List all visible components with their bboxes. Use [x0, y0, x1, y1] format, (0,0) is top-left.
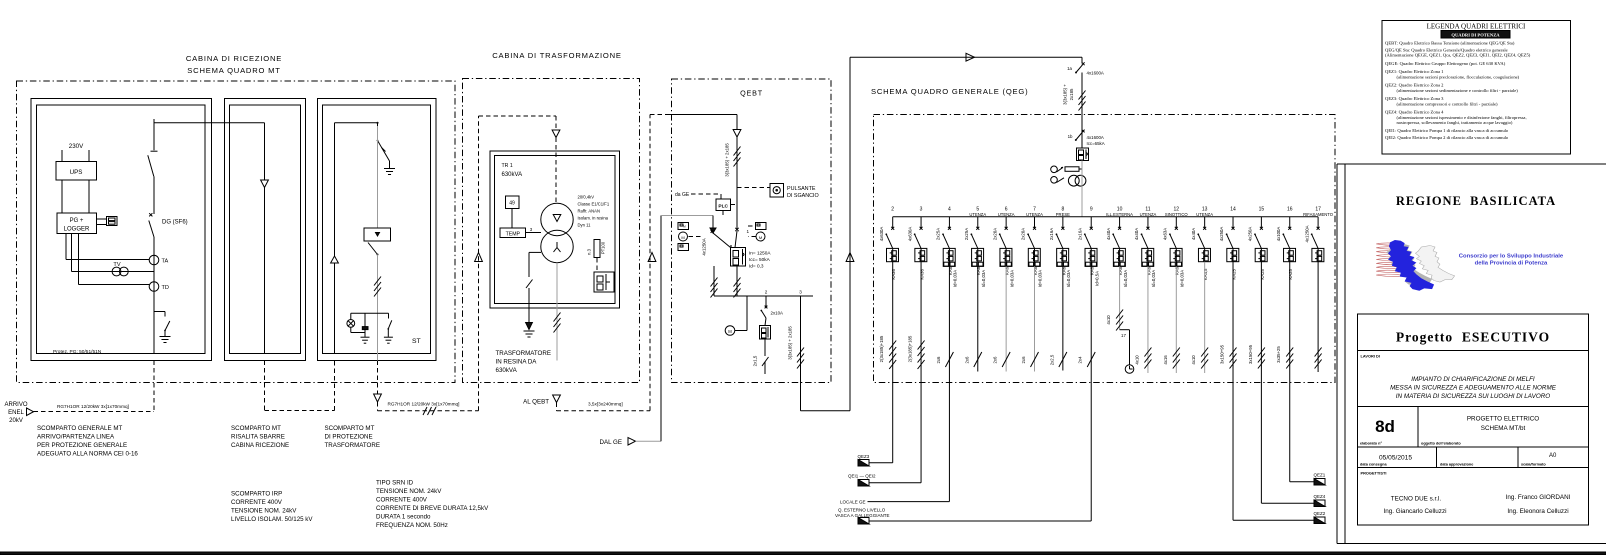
svg-text:17: 17 — [1121, 333, 1126, 338]
svg-text:Icc=65kA: Icc=65kA — [1087, 141, 1105, 146]
feeder 10 wire — [1119, 266, 1121, 329]
svg-text:Raffr. ANAN: Raffr. ANAN — [578, 209, 601, 214]
svg-text:RG7H1OR 12/20kW 3x[1x70mmq]: RG7H1OR 12/20kW 3x[1x70mmq] — [388, 402, 460, 407]
feeder 13 hatch — [1201, 348, 1208, 369]
feeder 2 switch — [760, 296, 783, 318]
wire — [1081, 161, 1083, 217]
feeder 3 cable label — [908, 335, 913, 362]
PG + LOGGER unit — [57, 213, 97, 234]
switch 1a — [1067, 57, 1104, 75]
CT TA — [149, 255, 168, 265]
svg-text:3x150+95: 3x150+95 — [1220, 344, 1225, 364]
wire feeder9 to Q.ESTERNO — [869, 520, 1091, 522]
feeder 16 hatch — [1286, 348, 1293, 369]
svg-text:CORRENTE DI BREVE DURATA 1: CORRENTE DI BREVE DURATA 12,5kV — [376, 505, 489, 512]
svg-text:DURATA 1 secondo: DURATA 1 secondo — [376, 514, 431, 521]
svg-text:2x6: 2x6 — [1021, 356, 1026, 364]
svg-text:Id=0,03A: Id=0,03A — [1038, 270, 1043, 287]
feeder 8 wire — [1062, 266, 1064, 370]
svg-text:4x100A: 4x100A — [1276, 227, 1281, 242]
progettisti box — [1358, 468, 1589, 526]
svg-text:2(3x185)+185: 2(3x185)+185 — [879, 335, 884, 362]
surge arrester — [362, 313, 368, 337]
feeder 4 wire — [948, 266, 950, 382]
svg-text:(alimentazione compressori e c: (alimentazione compressori e controllo f… — [1397, 102, 1498, 107]
wire logger to TD — [79, 234, 150, 285]
feeder 13 rating — [1203, 268, 1208, 280]
svg-text:QEZ3: Quadro Elettrico Zona 3: QEZ3: Quadro Elettrico Zona 3 — [1385, 96, 1444, 101]
svg-text:KA4,5: KA4,5 — [1203, 268, 1208, 280]
feeder 13 breaker — [1198, 248, 1210, 261]
ground — [384, 337, 393, 343]
wire riser cell2 — [264, 123, 266, 180]
wire logger to TA — [66, 234, 149, 260]
feeder 13 cable label — [1191, 355, 1196, 365]
svg-text:SCOMPARTO IRP: SCOMPARTO IRP — [231, 491, 282, 498]
svg-text:SCOMPARTO MT: SCOMPARTO MT — [231, 425, 281, 432]
svg-text:Id= 0,3: Id= 0,3 — [749, 264, 764, 269]
svg-text:RIFASAMENTO: RIFASAMENTO — [1303, 212, 1334, 217]
wire — [62, 150, 89, 162]
svg-text:QEZ4: Quadro Elettrico Zona 4: QEZ4: Quadro Elettrico Zona 4 — [1385, 110, 1444, 115]
svg-text:data consegna: data consegna — [1360, 463, 1387, 467]
wire cell3 top — [335, 122, 379, 124]
feeder 4 rating — [948, 266, 958, 287]
svg-text:A0: A0 — [1549, 453, 1557, 459]
feeder 4 wire below — [948, 383, 950, 502]
svg-text:REGIONE BASILICATA: REGIONE BASILICATA — [1396, 194, 1556, 208]
svg-text:TEMP: TEMP — [506, 232, 521, 238]
label 2x1,5 — [753, 355, 758, 366]
scomparto IRP caption — [231, 491, 313, 524]
svg-text:3(3x185) +: 3(3x185) + — [1063, 84, 1068, 105]
svg-text:QEBT: Quadro Elettrico Bassa T: QEBT: Quadro Elettrico Bassa Tensione (a… — [1385, 41, 1515, 46]
svg-text:QEZ2: Quadro Elettrico Zona 2: QEZ2: Quadro Elettrico Zona 2 — [1385, 83, 1444, 88]
switch contact — [368, 243, 379, 256]
svg-text:LIVELLO ISOLAM. 50/125 kV: LIVELLO ISOLAM. 50/125 kV — [231, 516, 313, 523]
breaker data — [749, 251, 771, 269]
cable to QEBT (dashed) — [557, 115, 738, 411]
scomparto generale MT cell — [31, 99, 212, 361]
svg-text:PER PROTEZIONE GENERALE: PER PROTEZIONE GENERALE — [37, 442, 127, 449]
tipo SRN caption — [376, 480, 489, 530]
svg-text:2x2,5: 2x2,5 — [1049, 354, 1054, 365]
oggetto text — [1467, 416, 1539, 433]
wire feeder16 to QEZ1 — [1290, 481, 1314, 483]
cable label vertical — [725, 143, 730, 177]
feeder 14 cable label — [1220, 344, 1225, 364]
feeder 2 wire — [892, 262, 894, 383]
svg-text:20kV: 20kV — [9, 418, 23, 424]
svg-text:CABINA RICEZIONE: CABINA RICEZIONE — [231, 442, 289, 449]
feeder 7 breaker — [1028, 248, 1040, 266]
svg-text:CABINA DI TRASFORMAZIONE: CABINA DI TRASFORMAZIONE — [492, 51, 622, 60]
svg-text:4x16: 4x16 — [1163, 355, 1168, 365]
transformer TR1 — [541, 203, 573, 262]
feeder 9 wire — [1090, 266, 1092, 382]
feeder 10 breaker — [1113, 248, 1125, 266]
flag Q. ESTERNO — [835, 508, 889, 525]
wire — [153, 312, 155, 354]
feeder 3 hatch — [918, 341, 925, 370]
transformer earthing — [526, 252, 541, 329]
svg-text:8d: 8d — [1375, 417, 1395, 436]
label 4x1250A — [702, 238, 707, 255]
svg-text:ST: ST — [412, 338, 421, 345]
QEG busbar — [893, 216, 1318, 218]
wire — [377, 255, 379, 361]
cable to transformer (dashed) — [374, 361, 479, 411]
svg-text:AL QEBT: AL QEBT — [523, 399, 549, 406]
svg-text:Id=0,03A: Id=0,03A — [1151, 270, 1156, 287]
disconnector DG (SF6) — [149, 213, 188, 237]
svg-text:Consorzio per lo Sviluppo Indu: Consorzio per lo Sviluppo Industriale — [1459, 254, 1564, 260]
svg-text:M: M — [759, 235, 762, 240]
voltmeter — [1051, 166, 1082, 173]
svg-text:elaborato n°: elaborato n° — [1360, 442, 1382, 446]
feeder 6 UTENZA — [992, 207, 1014, 249]
wire from GE — [636, 216, 662, 442]
feeder 4 cable label — [936, 356, 941, 364]
svg-text:Id=0,03A: Id=0,03A — [1009, 270, 1014, 287]
svg-text:PRESE: PRESE — [1056, 212, 1070, 217]
feeder 14 rating — [1231, 269, 1236, 280]
wire main riser cell1 — [153, 119, 155, 150]
progetto box — [1358, 314, 1589, 351]
svg-text:2x10A: 2x10A — [771, 311, 784, 316]
wire feeder4 to LOCALE GE — [868, 501, 950, 503]
svg-text:Protez. PG: 50/51/51N: Protez. PG: 50/51/51N — [53, 349, 102, 355]
svg-text:KA25: KA25 — [1260, 269, 1265, 280]
svg-text:LOCALE GE: LOCALE GE — [840, 500, 866, 505]
flag QEZ4 — [1314, 494, 1326, 507]
arrow down — [552, 130, 560, 138]
data box — [1358, 447, 1589, 468]
feeder 11 rating — [1146, 266, 1156, 287]
svg-text:TA: TA — [162, 259, 169, 265]
marker triangle — [648, 253, 656, 262]
earthing switch cell1 — [154, 312, 170, 337]
cabina di ricezione title — [186, 54, 282, 75]
TR1 enclosure — [490, 151, 620, 308]
transformer TV — [112, 262, 128, 276]
wire GE to changeover — [661, 216, 716, 234]
svg-text:2: 2 — [765, 290, 768, 295]
consorzio text — [1459, 254, 1564, 267]
PLC unit — [716, 199, 737, 216]
conductor hatch — [554, 313, 561, 333]
svg-text:2: 2 — [891, 207, 894, 213]
svg-text:MESSA IN SICUREZZA E ADEGUAMEN: MESSA IN SICUREZZA E ADEGUAMENTO ALLE NO… — [1390, 385, 1557, 392]
timer branch 17 — [1120, 330, 1130, 365]
svg-text:(alimentazione sezioni sedimen: (alimentazione sezioni sedimentazione e … — [1397, 88, 1519, 93]
feeder 15 rating — [1260, 269, 1265, 280]
node 230V — [69, 143, 84, 150]
scomparto risalita caption — [231, 425, 289, 449]
feeder 6 cable label — [993, 356, 998, 364]
svg-text:2x20A: 2x20A — [1021, 228, 1026, 240]
feeder 9 hatch — [1087, 352, 1095, 367]
svg-text:CORRENTE 400V: CORRENTE 400V — [376, 497, 428, 504]
svg-text:SCHEMA MT/bt: SCHEMA MT/bt — [1481, 425, 1526, 432]
label ST — [412, 338, 421, 345]
feeder 14 hatch — [1230, 348, 1237, 369]
svg-text:3: 3 — [799, 290, 802, 295]
title panel frame — [1337, 164, 1606, 544]
feeder 5 cable label — [964, 356, 969, 364]
pulsante di sgancio — [737, 184, 819, 200]
feeder 12 wire — [1175, 266, 1177, 373]
progettisti text — [1384, 494, 1571, 515]
REGIONE BASILICATA heading — [1396, 194, 1556, 208]
wire feeder14 to QEZ2 — [1233, 519, 1314, 521]
feeder 8 cable label — [1049, 354, 1054, 365]
feeder 10 hatch — [1116, 310, 1123, 331]
feeder 17 RIFASAMENTO — [1303, 207, 1334, 249]
svg-text:IMPIANTO DI CHIARIFICAZIONE DI: IMPIANTO DI CHIARIFICAZIONE DI MELFI — [1411, 376, 1535, 383]
feeder 2 wire below — [892, 383, 894, 463]
feeder 4 — [936, 207, 951, 249]
svg-text:IN MATERIA DI SICUREZZA SUI LU: IN MATERIA DI SICUREZZA SUI LUOGHI DI LA… — [1396, 393, 1551, 400]
svg-text:LAVORI DI: LAVORI DI — [1361, 354, 1380, 359]
QEBT busbar — [714, 290, 813, 297]
svg-text:DG (SF6): DG (SF6) — [162, 220, 188, 226]
feeder 16 cable label — [1276, 346, 1281, 363]
svg-text:Id=0,03A: Id=0,03A — [1123, 270, 1128, 287]
lamp assembly bar — [351, 312, 389, 314]
svg-text:4x630A: 4x630A — [907, 227, 912, 242]
legend subtitle box — [1441, 31, 1510, 39]
svg-text:CORRENTE 400V: CORRENTE 400V — [231, 499, 283, 506]
svg-text:UPS: UPS — [70, 169, 83, 176]
svg-text:3,5x[3x240mmq]: 3,5x[3x240mmq] — [588, 402, 623, 407]
svg-text:Isolam. in resina: Isolam. in resina — [578, 216, 609, 221]
svg-text:2x1,5: 2x1,5 — [753, 355, 758, 366]
feeder 11 hatch — [1144, 348, 1151, 369]
feeder 11 UTENZA — [1134, 207, 1156, 249]
legend box — [1382, 21, 1571, 155]
svg-text:Ing. Eleonora Celluzzi: Ing. Eleonora Celluzzi — [1507, 508, 1568, 515]
svg-text:ENEL: ENEL — [8, 410, 24, 416]
changeover contact GE side — [711, 230, 731, 247]
UPS U1 — [56, 162, 97, 181]
svg-text:LEGENDA QUADRI ELETTRICI: LEGENDA QUADRI ELETTRICI — [1427, 23, 1526, 31]
svg-text:UTENZA: UTENZA — [1196, 212, 1213, 217]
flag QEZ2 — [1314, 511, 1326, 524]
svg-text:3x35+25: 3x35+25 — [1276, 346, 1281, 363]
svg-text:Id=0,03A: Id=0,03A — [953, 270, 958, 287]
svg-text:TENSIONE NOM. 24kV: TENSIONE NOM. 24kV — [376, 488, 442, 495]
svg-text:RG7H1OR 12/20kW 3x[1x70mmq]: RG7H1OR 12/20kW 3x[1x70mmq] — [57, 404, 129, 409]
CT QEG — [1068, 175, 1086, 186]
lavori box — [1358, 351, 1589, 407]
TR1 data note — [578, 195, 610, 228]
flag QEZ3 — [858, 454, 870, 466]
svg-text:2x6: 2x6 — [993, 356, 998, 364]
QEG title — [871, 87, 1028, 96]
svg-text:630kVA: 630kVA — [496, 367, 518, 374]
svg-text:2x16A: 2x16A — [1077, 228, 1082, 240]
svg-text:data approvazione: data approvazione — [1440, 463, 1473, 467]
svg-text:UTENZA: UTENZA — [1026, 212, 1043, 217]
wire cell1 to cell2 — [154, 122, 265, 124]
svg-text:QUADRI DI POTENZA: QUADRI DI POTENZA — [1451, 33, 1500, 38]
feeder 6 wire — [1005, 266, 1007, 371]
svg-text:Id=0,03A: Id=0,03A — [981, 270, 986, 287]
node da GE — [675, 192, 721, 199]
secondary conductor — [556, 263, 558, 361]
svg-text:Dyn 11: Dyn 11 — [578, 223, 592, 228]
svg-text:PROGETTO ELETTRICO: PROGETTO ELETTRICO — [1467, 416, 1539, 423]
svg-text:16: 16 — [1287, 207, 1293, 213]
scomparto protezione trasformatore cell — [318, 99, 437, 361]
svg-text:4x10: 4x10 — [1134, 355, 1139, 365]
svg-text:LOGGER: LOGGER — [64, 227, 90, 233]
svg-text:4x10: 4x10 — [1191, 355, 1196, 365]
svg-text:QEZ1: Quadro Elettrico Zona 1: QEZ1: Quadro Elettrico Zona 1 — [1385, 69, 1444, 74]
conductor hatch — [1079, 91, 1086, 111]
svg-text:Ing. Franco GIORDANI: Ing. Franco GIORDANI — [1506, 494, 1571, 501]
feeder 14 wire — [1232, 262, 1234, 383]
feeder 8 hatch — [1059, 352, 1067, 367]
wire — [62, 180, 89, 213]
svg-text:3(3x185) + 2x185: 3(3x185) + 2x185 — [725, 143, 730, 177]
ground — [524, 331, 535, 337]
svg-text:ARRIVO: ARRIVO — [4, 402, 27, 408]
svg-text:4x40A: 4x40A — [1134, 228, 1139, 240]
marker triangle — [331, 256, 339, 263]
svg-text:4x1600A: 4x1600A — [1087, 71, 1104, 76]
cable to ENEL (dashed) — [34, 361, 155, 412]
feeder 10 cable label — [1106, 315, 1111, 325]
svg-text:TRASFORMATORE: TRASFORMATORE — [325, 442, 380, 449]
feeder 15 cable label — [1248, 344, 1253, 364]
svg-text:CABINA DI RICEZIONE: CABINA DI RICEZIONE — [186, 54, 282, 63]
svg-text:1b: 1b — [1068, 134, 1073, 139]
consorzio logo — [1376, 240, 1454, 291]
label LOCALE GE — [840, 500, 866, 505]
svg-text:SCHEMA QUADRO GENERALE (QEG: SCHEMA QUADRO GENERALE (QEG) — [871, 87, 1028, 96]
svg-text:scala/formato: scala/formato — [1521, 463, 1546, 467]
conductor hatch — [797, 348, 804, 369]
feeder 17 hatch — [1315, 348, 1322, 369]
svg-text:DI SGANCIO: DI SGANCIO — [787, 193, 819, 199]
feeder 10 rating — [1118, 266, 1128, 287]
motor operator right — [748, 223, 766, 242]
svg-text:49: 49 — [509, 201, 515, 207]
svg-text:KA36: KA36 — [891, 269, 896, 280]
wire — [334, 263, 336, 354]
svg-text:2x16A: 2x16A — [1049, 228, 1054, 240]
feeder 3 breaker — [915, 248, 927, 261]
svg-text:UTENZA: UTENZA — [998, 212, 1015, 217]
svg-text:3(3x185) + 2x185: 3(3x185) + 2x185 — [788, 326, 793, 360]
lamp — [347, 313, 365, 332]
cable label vertical — [788, 326, 793, 360]
circuit breaker QEBT — [731, 248, 746, 267]
feeder 11 wire — [1147, 266, 1149, 373]
cable label RG7H1OR right — [388, 402, 460, 407]
svg-text:4x10: 4x10 — [1106, 315, 1111, 325]
svg-text:TRASFORMATORE: TRASFORMATORE — [496, 350, 551, 357]
feeder 7 UTENZA — [1021, 207, 1043, 249]
feeder 15 breaker — [1255, 248, 1267, 261]
marker triangle — [475, 253, 483, 262]
svg-text:QEI1: Quadro Elettrico Pompa 1: QEI1: Quadro Elettrico Pompa 1 di rilanc… — [1385, 128, 1509, 133]
feeder 3 wire below — [920, 383, 922, 483]
feeder 2 breaker — [887, 248, 899, 261]
feeder 13 UTENZA — [1191, 207, 1213, 249]
legend entries — [1385, 41, 1531, 141]
svg-text:TD: TD — [162, 285, 169, 291]
svg-text:QEI2: Quadro Elettrico Pompa 2: QEI2: Quadro Elettrico Pompa 2 di rilanc… — [1385, 135, 1509, 140]
feeder 5 hatch — [974, 352, 982, 367]
fuse contact — [762, 357, 769, 374]
svg-text:4x250A: 4x250A — [1248, 227, 1253, 242]
wire circuit 3 — [800, 296, 802, 411]
feeder 7 wire — [1034, 266, 1036, 371]
conductor hatch — [374, 277, 381, 297]
protection relay note — [53, 349, 102, 355]
wire — [153, 237, 155, 312]
feeder 9 wire below — [1090, 383, 1092, 522]
wire to QEG — [801, 57, 1083, 411]
feeder 8 breaker — [1057, 248, 1069, 266]
feeder 3 — [907, 207, 922, 249]
wire riser cell3 — [334, 123, 336, 256]
svg-text:14: 14 — [1230, 207, 1236, 213]
svg-text:FREQUENZA NOM. 50Hz: FREQUENZA NOM. 50Hz — [376, 522, 448, 529]
arrow down — [261, 180, 269, 188]
svg-text:SCOMPARTO GENERALE MT: SCOMPARTO GENERALE MT — [37, 425, 122, 432]
cable hatch — [423, 407, 436, 415]
svg-text:4x1600A: 4x1600A — [1087, 135, 1104, 140]
svg-text:Id=0,03A: Id=0,03A — [1180, 270, 1185, 287]
feeder 17 rating — [0, 0, 1, 1]
svg-text:SCHEMA QUADRO MT: SCHEMA QUADRO MT — [187, 66, 280, 75]
wire — [1081, 73, 1083, 149]
svg-text:TECNO DUE s.r.l.: TECNO DUE s.r.l. — [1391, 496, 1442, 503]
svg-text:UTENZA: UTENZA — [969, 212, 986, 217]
feeder 8 PRESE — [1049, 207, 1070, 249]
QEBT boundary — [672, 79, 832, 383]
svg-text:TENSIONE NOM. 24kV: TENSIONE NOM. 24kV — [231, 508, 297, 515]
svg-text:2x6: 2x6 — [936, 356, 941, 364]
feeder 5 rating — [976, 266, 986, 287]
motor operator left — [678, 223, 702, 251]
node DAL GE — [600, 438, 636, 447]
feeder 5 breaker — [972, 248, 984, 266]
QEBT title — [740, 89, 763, 98]
feeder 16 rating — [1288, 269, 1293, 280]
motor M aux — [725, 296, 747, 335]
sensor PT100 — [587, 240, 606, 273]
svg-text:QEZ2: QEZ2 — [1314, 511, 1326, 516]
svg-text:KA36: KA36 — [919, 269, 924, 280]
wire feeder2 to QEZ3 — [869, 462, 893, 464]
feeder 7 cable label — [1021, 356, 1026, 364]
arrow right — [966, 53, 975, 61]
feeder 12 SINOTTICO — [1163, 207, 1189, 249]
feeder 3 wire — [920, 262, 922, 383]
ground — [384, 169, 395, 175]
svg-text:2x20A: 2x20A — [992, 228, 997, 240]
svg-text:4x1250A: 4x1250A — [702, 238, 707, 255]
feeder 7 rating — [1033, 266, 1043, 287]
svg-text:2x6: 2x6 — [964, 356, 969, 364]
feeder 9 breaker — [1085, 248, 1097, 266]
feeder 12 rating — [1175, 266, 1185, 287]
